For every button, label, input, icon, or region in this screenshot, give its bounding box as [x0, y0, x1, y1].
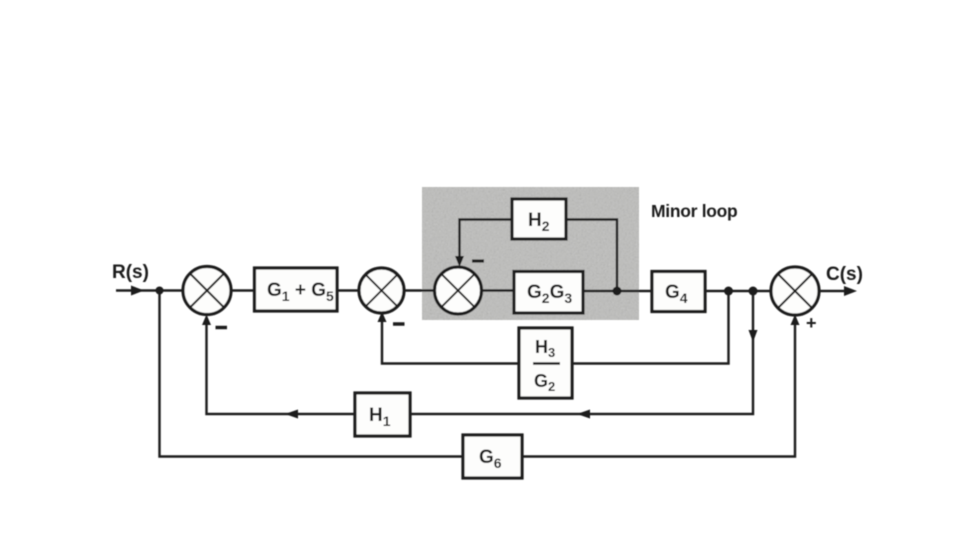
- wire node B up to H2: [566, 220, 617, 292]
- direction arrowhead left between H1 and S1: [285, 410, 298, 419]
- wire G6 right and up to S4 bottom: [522, 317, 795, 457]
- wire S3 to block G2G3: [482, 289, 515, 291]
- block H2: [512, 199, 566, 239]
- input arrowhead: [131, 286, 144, 296]
- wire node C down and left to H3/G2: [572, 291, 729, 364]
- wire G4 to summer S4: [705, 290, 771, 292]
- wire H3/G2 left and up to S2 bottom: [382, 315, 519, 364]
- summing junction S3: [435, 267, 482, 314]
- svg-text:R(s): R(s): [112, 262, 149, 283]
- wire node D down to H1 row: [410, 291, 753, 414]
- arrowhead into S4: [791, 315, 800, 326]
- wire H1 left and up to S1 bottom: [207, 317, 356, 414]
- svg-text:Minor loop: Minor loop: [651, 201, 737, 221]
- node D (H1 pickoff): [749, 287, 758, 296]
- block H3/G2: [519, 328, 572, 398]
- direction arrowhead left on H1 row: [577, 410, 590, 419]
- block G6: [463, 435, 522, 478]
- node C (H3/G2 pickoff): [724, 287, 733, 296]
- wire G2G3 to block G4: [583, 290, 652, 292]
- summing junction S2: [359, 268, 404, 313]
- direction arrowhead down on node D drop: [749, 330, 758, 342]
- block G4: [652, 272, 705, 312]
- block H1: [355, 393, 410, 436]
- svg-text:G1 + G5: G1 + G5: [267, 280, 334, 304]
- arrowhead into S2: [378, 312, 387, 323]
- wire S2 to summer S3: [404, 289, 435, 291]
- arrowhead into S3: [455, 256, 464, 267]
- output arrowhead: [844, 286, 857, 296]
- wire H2 to S3 top: [460, 220, 513, 265]
- wire node A to summer S1: [160, 289, 183, 291]
- minor loop shaded region: [422, 187, 639, 320]
- wire S4 to output C(s): [819, 290, 852, 292]
- arrowhead into S1: [202, 315, 211, 326]
- svg-text:+: +: [806, 313, 817, 333]
- svg-text:C(s): C(s): [826, 264, 863, 285]
- summing junction S1: [183, 267, 231, 315]
- block G2G3: [514, 272, 583, 314]
- minus sign at S1: [216, 326, 228, 330]
- wire G1+G5 to summer S2: [337, 289, 359, 291]
- wire node A down and right to G6: [160, 291, 464, 457]
- minus sign at S3: [472, 259, 484, 262]
- block G1+G5: [255, 268, 338, 311]
- node A (input pickoff): [156, 287, 164, 295]
- summing junction S4: [771, 267, 819, 315]
- node B (minor loop pickoff): [613, 287, 622, 296]
- minus sign at S2: [393, 322, 405, 326]
- wire S1 to block G1+G5: [231, 289, 254, 291]
- wire input R(s) to node A: [116, 289, 159, 291]
